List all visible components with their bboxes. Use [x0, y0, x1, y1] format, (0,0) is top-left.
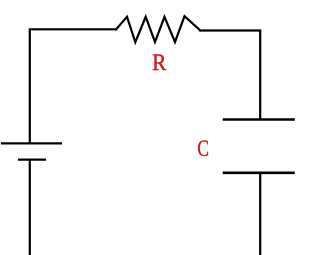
svg-text:C: C [197, 136, 209, 161]
svg-text:R: R [152, 50, 167, 75]
